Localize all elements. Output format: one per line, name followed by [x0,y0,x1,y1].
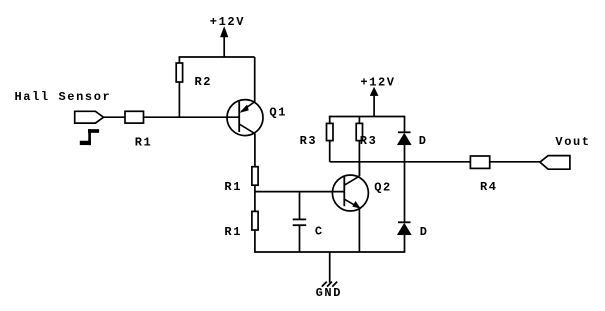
svg-text:R1: R1 [224,225,242,239]
svg-text:D: D [420,225,429,239]
output connector Vout [540,156,570,170]
wire: R3b down to Q2 collector [358,141,360,176]
svg-text:Vout: Vout [555,135,590,149]
svg-text:+12V: +12V [360,75,395,89]
resistor R3 (right) [356,123,362,140]
wire: R2 upper leg [178,57,180,63]
power +12V supply 2 [370,87,378,116]
svg-text:R3: R3 [300,134,318,148]
svg-text:GND: GND [316,286,342,300]
svg-text:Q2: Q2 [374,181,392,195]
resistor R1 (vertical upper) [252,167,258,186]
transistor Q2 (NPN) [332,175,368,211]
transistor Q1 (PNP) [227,100,263,136]
resistor R3 (left) [327,123,334,140]
wire: D1 through output node down to D2 [404,145,406,223]
svg-text:R1: R1 [135,135,153,149]
resistor R1 (vertical lower) [252,211,258,230]
wire: rail to Q1 emitter (top) [254,57,256,102]
svg-text:+12V: +12V [210,15,245,29]
svg-text:C: C [315,224,324,238]
svg-text:R3: R3 [360,134,378,148]
wire: top rail 2 [329,116,406,118]
svg-text:R1: R1 [224,180,242,194]
wire: R2 lower leg [178,82,180,117]
wire: output line rail to Q2 collector [358,162,360,176]
wire: Q2 emitter to bottom rail [358,208,360,252]
svg-text:Q1: Q1 [269,106,287,120]
diode D2 [397,222,411,235]
diode D1 [397,132,411,145]
power +12V supply 1 [220,27,228,57]
wire: R1 to Q1 base [144,116,240,118]
wire: rail to R3b [358,117,360,124]
wire: between vertical R1 resistors [254,185,256,211]
wire: Q1 collector down to R1 chain [254,134,256,167]
svg-text:Hall Sensor: Hall Sensor [15,90,112,104]
wire: R4 to Vout connector [490,161,540,163]
wire: connector tip to R1 [104,116,126,118]
wire: D2 to bottom rail [404,235,406,252]
wire: bottom rail [254,251,405,253]
resistor R4 [470,156,489,168]
resistor R2 [176,63,182,82]
ground GND [322,252,337,287]
svg-text:R4: R4 [480,180,498,194]
resistor R1 (horizontal) [125,111,144,123]
capacitor C [293,192,307,252]
svg-text:D: D [419,134,428,148]
svg-text:R2: R2 [195,75,213,89]
wire: rail to diode D1 [404,117,406,133]
wire: node to Q2 base [255,191,344,193]
wire: lower R1 to bottom rail [254,230,256,252]
wire: R3a to output line [329,141,331,162]
wire: rail to R3a [329,117,331,124]
wire: top rail 1 [179,56,255,58]
step waveform glyph [80,129,99,145]
wire: output line to R4 [330,161,471,163]
input connector (Hall Sensor tag) [75,111,104,123]
